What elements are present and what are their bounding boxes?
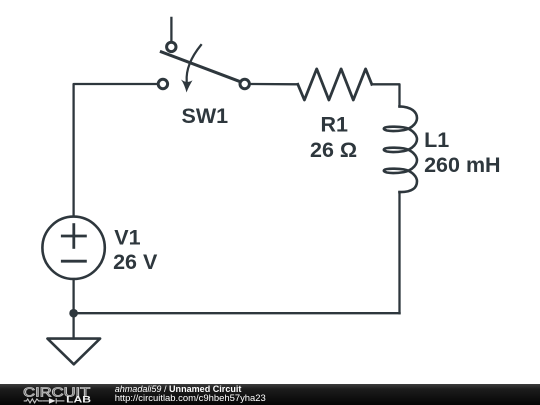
wire bottom rail bbox=[74, 312, 400, 314]
V1 plus sign bbox=[62, 235, 85, 238]
V1 minus sign bbox=[62, 260, 85, 263]
ground symbol bbox=[47, 339, 100, 365]
svg-text:L1: L1 bbox=[424, 128, 449, 152]
wire top stub above switch bbox=[170, 18, 172, 42]
switch SW1 left terminal circle bbox=[158, 79, 167, 88]
voltage source V1 circle bbox=[42, 217, 104, 279]
switch SW1 bbox=[158, 42, 249, 92]
resistor R1 bbox=[298, 69, 372, 100]
svg-text:V1: V1 bbox=[114, 226, 140, 250]
svg-text:SW1: SW1 bbox=[182, 104, 229, 128]
voltage source V1 bbox=[42, 217, 104, 279]
svg-text:26 V: 26 V bbox=[113, 250, 158, 274]
wire from V1 bottom through junction to ground bbox=[72, 279, 74, 339]
wire from inductor bottom to bottom rail bbox=[398, 192, 400, 313]
svg-text:R1: R1 bbox=[321, 113, 349, 137]
wire from switch right terminal to resistor bbox=[250, 83, 297, 86]
switch SW1 actuation arrow bbox=[187, 45, 201, 82]
switch SW1 right terminal circle bbox=[240, 79, 249, 88]
switch SW1 top terminal circle bbox=[167, 42, 176, 51]
junction node at bottom rail bbox=[69, 309, 78, 318]
svg-text:26 Ω: 26 Ω bbox=[310, 138, 357, 162]
wire from resistor to inductor top bbox=[372, 84, 400, 106]
wire from switch left terminal to V1 top bbox=[74, 84, 158, 216]
svg-text:260 mH: 260 mH bbox=[424, 153, 501, 177]
CircuitLab logo resistor squiggle and diode bbox=[24, 398, 65, 403]
svg-text:LAB: LAB bbox=[66, 395, 92, 405]
switch SW1 blade bbox=[161, 52, 239, 82]
inductor L1 bbox=[384, 106, 417, 192]
svg-text:http://circuitlab.com/c9hbeh57: http://circuitlab.com/c9hbeh57yha23 bbox=[115, 393, 266, 404]
